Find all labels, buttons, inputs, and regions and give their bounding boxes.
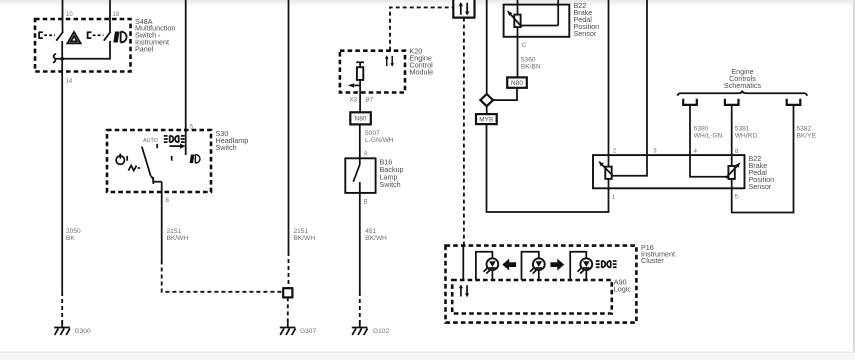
- dashed wire to G102: [359, 292, 361, 324]
- sensor B22 box (lower): [593, 155, 745, 188]
- potentiometer B22L left: [605, 167, 611, 179]
- connector N80 (2): [507, 77, 527, 87]
- LED loop 1: [476, 252, 493, 280]
- svg-text:1: 1: [612, 195, 616, 201]
- svg-text:5382: 5382: [797, 126, 812, 133]
- wire label 2151 BK/WH (left): [167, 228, 189, 242]
- cluster P16 dashed box: [446, 246, 637, 323]
- bus arrows: [459, 2, 470, 16]
- pot arrow B22L left: [598, 161, 612, 176]
- LED loop 3: [570, 252, 586, 280]
- pot wiper line B22u: [521, 25, 559, 27]
- potentiometer B22L right: [728, 166, 734, 179]
- switch B16 box: [345, 158, 375, 193]
- svg-text:451: 451: [365, 228, 376, 235]
- svg-text:N80: N80: [511, 80, 523, 87]
- LED indicator 2: [530, 258, 545, 273]
- svg-text:5: 5: [735, 195, 739, 201]
- pot arrow B22L right: [726, 162, 741, 178]
- switch 2 actuator: [87, 32, 103, 39]
- svg-text:8: 8: [166, 198, 170, 204]
- wire pin 2 feed: [608, 0, 610, 167]
- svg-text:3: 3: [653, 148, 657, 154]
- B16 blade: [353, 165, 360, 182]
- wire S48A pin 18 feed: [109, 0, 111, 32]
- wire pin C down: [517, 27, 519, 77]
- svg-text:BK: BK: [66, 235, 75, 242]
- svg-text:B: B: [364, 200, 368, 206]
- svg-text:C: C: [522, 43, 527, 49]
- label K20: [410, 46, 434, 76]
- svg-text:5360: 5360: [521, 57, 536, 64]
- pot arrow B22u: [507, 10, 522, 27]
- svg-text:AUTO: AUTO: [143, 138, 158, 144]
- svg-text:G102: G102: [373, 328, 389, 335]
- wire S30 pin 8 down: [161, 182, 163, 261]
- svg-text:N80: N80: [354, 115, 366, 122]
- wire label 2050 BK: [66, 228, 81, 242]
- data link K20 to bus: [390, 7, 453, 50]
- potentiometer B22u: [514, 15, 520, 28]
- svg-text:A: A: [364, 152, 368, 158]
- switch S30 dashed box: [107, 130, 211, 192]
- label P16: [641, 243, 675, 265]
- svg-text:Switch: Switch: [216, 143, 237, 152]
- svg-text:L-GN/WH: L-GN/WH: [365, 137, 394, 144]
- parking lamps glyph: [164, 136, 185, 143]
- wire label 5380 WH/L-GN: [694, 126, 723, 140]
- svg-text:BK/WH: BK/WH: [294, 235, 316, 242]
- wire pin 3 feed: [613, 0, 647, 176]
- switch S48A dashed box: [35, 19, 131, 72]
- svg-text:BK/WH: BK/WH: [167, 235, 189, 242]
- connector MYB: [476, 114, 497, 124]
- junction dot: [60, 57, 64, 61]
- position tick headlamp: [171, 156, 173, 161]
- wire below resistor: [359, 80, 361, 113]
- wire N80 to B16: [359, 124, 361, 158]
- wire label 5007 L-GN/WH: [365, 130, 394, 144]
- sensor B22 box (upper): [504, 5, 570, 37]
- wire MYB to B22 pin 1: [487, 124, 609, 212]
- left turn arrow: [502, 259, 516, 271]
- svg-text:G300: G300: [75, 328, 91, 335]
- headlamp glyph: [190, 154, 200, 163]
- svg-text:2: 2: [613, 148, 617, 154]
- label S30: [216, 129, 249, 152]
- svg-text:Sensor: Sensor: [749, 182, 772, 191]
- brace engine controls: [678, 91, 807, 96]
- svg-text:Panel: Panel: [135, 44, 154, 53]
- power off symbol: [116, 154, 124, 165]
- switch 2 blade: [104, 32, 111, 41]
- svg-text:2050: 2050: [66, 228, 81, 235]
- wire N80 to diamond: [493, 88, 517, 100]
- wire feed to splice diamond: [486, 0, 488, 94]
- wire 5380 to pin 4: [690, 105, 727, 177]
- chrome: right edge: [853, 0, 855, 352]
- B16 wire in: [359, 158, 361, 164]
- dashed wire to G300: [61, 292, 63, 324]
- svg-text:Switch: Switch: [380, 180, 401, 189]
- serial data box: [453, 0, 474, 18]
- svg-text:Logic: Logic: [614, 284, 632, 293]
- svg-text:Schematics: Schematics: [724, 81, 762, 90]
- svg-text:Module: Module: [410, 67, 434, 76]
- wire label 2151 BK/WH (right): [294, 228, 316, 242]
- label B22 upper: [574, 1, 600, 38]
- svg-text:5381: 5381: [735, 126, 750, 133]
- svg-text:6: 6: [735, 149, 739, 155]
- svg-text:WH/L-GN: WH/L-GN: [694, 133, 723, 140]
- data arrows K20: [385, 55, 394, 67]
- wire B22u left feed: [517, 0, 519, 15]
- chrome: top gradient: [0, 0, 855, 7]
- svg-text:G307: G307: [300, 328, 316, 335]
- svg-text:Sensor: Sensor: [574, 29, 597, 38]
- connector 5380: [683, 99, 697, 105]
- resistor R (K20 internal): [357, 67, 363, 80]
- front fog indicator glyph: [113, 31, 126, 42]
- position tick AUTO: [156, 144, 158, 148]
- label A90 Logic: [614, 277, 632, 293]
- svg-text:18: 18: [113, 12, 120, 18]
- latch hook: [53, 54, 56, 63]
- parking lamps glyph (cluster): [596, 261, 617, 268]
- wire 5381 to pin 6: [731, 105, 733, 166]
- svg-text:2151: 2151: [294, 228, 309, 235]
- svg-text:4: 4: [694, 149, 698, 155]
- svg-text:BK/YE: BK/YE: [797, 133, 817, 140]
- LED indicator 3: [578, 258, 593, 273]
- wire 5382 to pin 5: [732, 105, 794, 213]
- module K20 dashed box: [340, 51, 405, 93]
- label S48A: [135, 17, 175, 54]
- svg-text:MYB: MYB: [479, 117, 493, 124]
- LED loop 2: [522, 252, 539, 280]
- chrome: bottom bar: [0, 352, 855, 360]
- B16 wire out: [359, 182, 361, 292]
- driver arrow: [348, 83, 360, 87]
- dashed wire to splice: [288, 252, 290, 288]
- dashed wire 2151 to splice: [162, 261, 283, 292]
- right turn arrow: [550, 259, 564, 271]
- svg-text:B7: B7: [366, 98, 374, 104]
- wire label 5360 BK/BN: [521, 57, 541, 71]
- wire B22u right feed: [557, 0, 559, 26]
- ground G300: [54, 322, 70, 335]
- svg-text:WH/RD: WH/RD: [735, 133, 758, 140]
- wire label 451 BK/WH: [365, 228, 387, 242]
- wire pot L to pin 1: [608, 179, 610, 188]
- svg-text:X3: X3: [350, 98, 358, 104]
- label B22 lower: [749, 154, 775, 191]
- serial data to cluster: [463, 18, 465, 246]
- switch 1 actuator: [39, 32, 55, 39]
- wire diamond to MYB: [486, 106, 488, 114]
- wire S48A pin 14 down: [61, 41, 63, 292]
- connector 5382: [787, 99, 801, 105]
- label B16: [380, 157, 404, 189]
- serial data into logic: [462, 246, 464, 280]
- wire switch 2 to junction: [56, 41, 110, 59]
- connector N80 (1): [350, 112, 371, 124]
- LED indicator 1: [484, 258, 499, 273]
- wire S48A pin 10 feed: [62, 0, 64, 32]
- svg-text:14: 14: [66, 78, 73, 84]
- bottom contact tick: [152, 177, 154, 184]
- svg-text:BK/BN: BK/BN: [521, 64, 541, 71]
- ground G307: [280, 322, 296, 335]
- label Engine Controls Schematics: [724, 67, 762, 90]
- wire label 5382 BK/YE: [797, 126, 817, 140]
- wire 2151 from top: [288, 0, 290, 252]
- svg-text:Cluster: Cluster: [641, 256, 664, 265]
- splice diamond: [480, 94, 493, 106]
- splice square: [283, 288, 292, 297]
- resistor pigtail: [356, 62, 364, 67]
- data arrows A90: [459, 284, 469, 297]
- ground G102: [352, 322, 368, 335]
- hazard indicator triangle: [67, 32, 80, 44]
- wiper arm contact: [169, 144, 185, 149]
- logic A90 dashed box: [452, 280, 612, 314]
- position tick off: [126, 156, 128, 161]
- wire S30 pin 5 feed: [185, 0, 187, 155]
- switch 1 blade: [56, 32, 63, 41]
- svg-text:5380: 5380: [694, 126, 709, 133]
- svg-text:5007: 5007: [365, 130, 380, 137]
- contact to pin 8: [153, 181, 161, 183]
- svg-text:10: 10: [66, 12, 73, 18]
- blade hook: [151, 176, 153, 181]
- dashed wire to G307: [287, 297, 289, 324]
- wire label 5381 WH/RD: [735, 126, 758, 140]
- rotary blade: [142, 147, 151, 177]
- svg-text:BK/WH: BK/WH: [365, 235, 387, 242]
- svg-text:2151: 2151: [167, 228, 182, 235]
- connector 5381: [725, 99, 739, 105]
- parking position zigzag: [128, 166, 142, 171]
